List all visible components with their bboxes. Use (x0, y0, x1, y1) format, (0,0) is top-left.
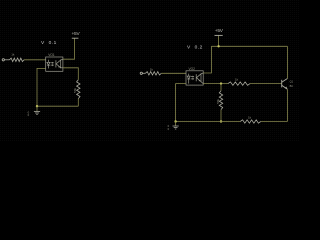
svg-text:1k: 1k (11, 53, 15, 57)
input terminal (right circuit) (140, 72, 142, 74)
VO1 box (46, 57, 63, 71)
bottom wire (left circuit) (37, 105, 78, 107)
wire Q1 collector to +5V rail (286, 46, 288, 78)
resistor R2 (77, 80, 80, 99)
wire VO2 cathode down (176, 84, 186, 122)
wire VO1 cathode down (37, 68, 46, 106)
LED inside VO2 (188, 74, 190, 77)
wire VO2 emitter row (203, 83, 228, 85)
svg-text:BC: BC (290, 84, 294, 88)
+5V rail wire (211, 45, 287, 47)
svg-text:56k: 56k (73, 87, 77, 92)
ground symbol (right) (173, 122, 179, 130)
svg-text:VO1: VO1 (48, 53, 55, 57)
junction emitter / R5 (220, 82, 222, 84)
wire R3 to VO2 anode (161, 72, 186, 74)
junction at ground tap (36, 105, 38, 107)
wire R2 to bottom net (77, 99, 79, 107)
resistor R5 (219, 91, 222, 110)
svg-text:V0.1: V0.1 (41, 40, 57, 46)
optocoupler VO1 (46, 57, 63, 71)
junction R5 / bottom bus (220, 120, 222, 122)
bottom bus wire (right circuit) (176, 121, 241, 123)
wire Q1 emitter down (286, 89, 288, 121)
junction at ground tap (right) (174, 120, 176, 122)
+5V power symbol (left) (72, 37, 79, 39)
wire VO2 collector to +5V rail (203, 46, 211, 73)
phototransistor inside VO1 (55, 60, 57, 67)
svg-text:1k: 1k (235, 78, 239, 82)
resistor R6 (240, 120, 260, 123)
svg-text:+5V: +5V (72, 31, 81, 37)
resistor R1 (10, 58, 25, 61)
resistor R4 (228, 82, 250, 85)
wire R5 bottom (220, 110, 222, 122)
wire emitter corner to R6 (261, 121, 288, 123)
wire R1 to VO1 anode (24, 59, 46, 61)
wire VO1 collector to +5V (63, 38, 75, 59)
svg-text:V0.2: V0.2 (187, 45, 203, 51)
optocoupler VO2 (186, 71, 203, 85)
svg-text:56k: 56k (216, 98, 220, 103)
svg-text:1k: 1k (150, 68, 154, 72)
junction at +5V tap (217, 45, 219, 47)
LED inside VO1 (47, 60, 49, 63)
svg-text:VO2: VO2 (189, 67, 196, 71)
wire +5V tap (218, 35, 220, 46)
resistor R3 (145, 72, 161, 75)
light arrows (191, 76, 194, 78)
light arrows (51, 62, 54, 64)
wire (4, 59, 9, 61)
ground symbol (left) (34, 106, 40, 114)
phototransistor inside VO2 (195, 74, 197, 81)
wire (142, 72, 145, 74)
wire R4 to Q1 base (250, 83, 282, 85)
svg-text:1k: 1k (248, 116, 252, 120)
wire R5 top (220, 84, 222, 91)
transistor Q1 (282, 79, 288, 90)
+5V power symbol (right) (215, 34, 223, 36)
input terminal (left circuit) (2, 59, 4, 61)
wire VO1 emitter to R2 (63, 68, 78, 80)
svg-text:+5V: +5V (215, 28, 224, 34)
VO2 box (186, 71, 203, 85)
svg-text:Q1: Q1 (290, 80, 294, 84)
